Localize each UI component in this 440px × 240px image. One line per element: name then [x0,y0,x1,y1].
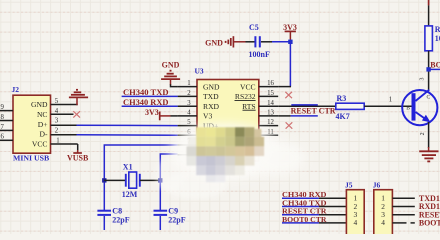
no-connect X on U3 pin15 [285,92,292,98]
IC U3 body [195,67,259,162]
svg-text:MINI USB: MINI USB [13,154,49,163]
power port VUSB on J2 pin1 [67,144,89,163]
wire R3 to transistor base [364,105,412,107]
capacitor C5 [249,23,270,59]
svg-text:VCC: VCC [32,140,48,149]
svg-text:R3: R3 [337,94,347,103]
connector J5 [345,180,364,236]
svg-text:RESET CTR: RESET CTR [291,107,336,116]
U3 left pin stubs [178,87,197,155]
J2 right pin stubs [51,105,78,145]
svg-text:3V3: 3V3 [145,108,159,117]
svg-text:14: 14 [267,100,274,107]
svg-text:BOOT0: BOOT0 [430,61,440,70]
svg-text:4: 4 [353,218,357,227]
J6 right pin stubs [392,198,414,223]
svg-text:C8: C8 [112,207,122,216]
svg-text:RTS: RTS [242,102,255,111]
svg-text:13: 13 [267,110,274,117]
wire (blue overlay segment) [291,104,318,106]
wire [104,179,125,181]
wire to U3 pin1 [171,84,178,86]
wire [428,5,430,26]
wire (blue) [272,41,290,43]
wire D- (USB pin2 to U3 pin6) [77,134,178,137]
wire RESET CTR (blue) [291,115,318,117]
svg-text:X1: X1 [123,163,133,172]
wire (C9 branch vertical) [159,180,161,210]
junction dot BOOT0 [426,67,430,71]
U3 right pin numbers [267,80,274,136]
ground (earth) on J2 pin5 [69,90,88,105]
capacitor C9 [154,207,186,225]
transistor Q1 [402,90,437,125]
svg-text:GND: GND [203,82,220,91]
pin name underlines (RS232, RTS) [235,100,256,110]
svg-text:2: 2 [420,132,426,135]
svg-text:NC: NC [37,110,48,119]
svg-text:12: 12 [267,119,274,126]
svg-text:VUSB: VUSB [67,154,89,163]
wire BOOT0 (blue, to right edge) [429,68,440,70]
ground GND (power port, left-pointing bars) [205,36,233,47]
svg-text:J2: J2 [12,85,20,94]
J5 pin stubs [319,198,347,223]
svg-text:CH340 TXD: CH340 TXD [123,88,169,97]
junction node at X1 right [158,178,162,182]
svg-text:CH340 RXD: CH340 RXD [123,98,169,107]
wire [140,179,161,181]
svg-text:3: 3 [55,118,59,125]
wire (blue vertical to pin16) [289,42,291,87]
svg-text:B: B [406,106,410,112]
wire [261,41,272,43]
svg-text:BOOT0: BOOT0 [419,219,440,228]
svg-text:15: 15 [267,90,274,97]
wire D+ (USB pin3 to U3 pin5) [77,124,178,126]
svg-text:100nF: 100nF [249,50,270,59]
wires to J5 (blue) [282,198,319,223]
svg-text:BOOT0 CTR: BOOT0 CTR [282,215,327,224]
J2 left pin numbers [1,104,5,141]
wire (C8 branch vertical) [103,180,105,210]
J2 right pin numbers [55,98,60,144]
svg-text:RXD: RXD [203,102,220,111]
power stub at top (red) [428,0,430,5]
wire XI (crystal left to U3 pin7) [104,145,177,180]
wire [246,41,256,43]
svg-text:C: C [427,95,431,101]
svg-text:22pF: 22pF [168,216,185,225]
svg-text:VCC: VCC [240,82,256,91]
svg-text:D+: D+ [38,120,48,129]
wire CH340 TXD (blue) [122,95,178,97]
svg-text:J6: J6 [373,180,381,189]
no-connect X on U3 pin12 [286,122,293,128]
wire to pin4 [171,115,178,117]
svg-text:GND: GND [31,100,48,109]
no-connect X on J2 pin4 [73,111,80,117]
resistor R2 [425,25,440,51]
connector J2 [12,85,51,163]
svg-text:TXD: TXD [203,92,219,101]
wire below C8 [103,216,105,230]
svg-text:J5: J5 [345,180,353,189]
junction dot [288,40,292,44]
svg-text:5: 5 [187,119,191,126]
svg-text:R2: R2 [435,25,440,34]
svg-text:4: 4 [187,110,191,117]
svg-text:10K: 10K [435,34,440,43]
power port 3V3 [283,23,297,41]
svg-text:2: 2 [187,90,191,97]
svg-text:D-: D- [39,130,47,139]
svg-text:C9: C9 [168,207,178,216]
svg-text:3: 3 [420,78,426,81]
capacitor C8 [97,207,129,225]
wire pin13 stub extension [278,115,290,117]
crystal X1 [122,163,140,199]
svg-text:RS232: RS232 [235,92,256,101]
wire pin14 to R3 [278,105,336,107]
svg-text:12M: 12M [122,190,138,199]
U3 left pin numbers [187,80,191,155]
U3 right pin stubs [259,87,278,136]
svg-text:GND: GND [205,38,223,47]
svg-text:3V3: 3V3 [283,23,297,32]
connector J6 [373,180,393,236]
svg-text:2: 2 [55,128,59,135]
wire CH340 RXD (blue) [122,105,178,107]
wire XO (crystal right to U3 pin8) [160,154,177,180]
resistor R3 [336,94,365,121]
svg-text:4: 4 [381,218,385,227]
U3 right pin names [235,82,256,111]
svg-text:1: 1 [389,96,392,103]
svg-text:1: 1 [187,80,190,87]
wire below C9 [159,216,161,230]
power port 3V3 (pin V3) [145,108,171,120]
svg-text:22pF: 22pF [112,216,129,225]
J2 left pin stubs [0,111,13,141]
junction node at X1 left [102,178,106,182]
svg-text:4K7: 4K7 [336,112,350,121]
svg-text:V3: V3 [203,112,212,121]
svg-text:16: 16 [267,80,274,87]
wire [428,51,430,91]
svg-text:GND: GND [162,60,180,69]
ground (earth below transistor) [419,147,438,161]
wire (red segment from ground) [234,41,246,43]
wire emitter down [428,122,430,148]
svg-text:C5: C5 [249,23,259,32]
wire to U3 pin 16 [278,86,291,88]
U3 left pin names [203,82,220,159]
ground GND (earth above U3 pin1) [161,60,180,85]
svg-text:U3: U3 [195,67,204,76]
svg-text:3: 3 [187,100,191,107]
J2 pin names [31,100,48,148]
